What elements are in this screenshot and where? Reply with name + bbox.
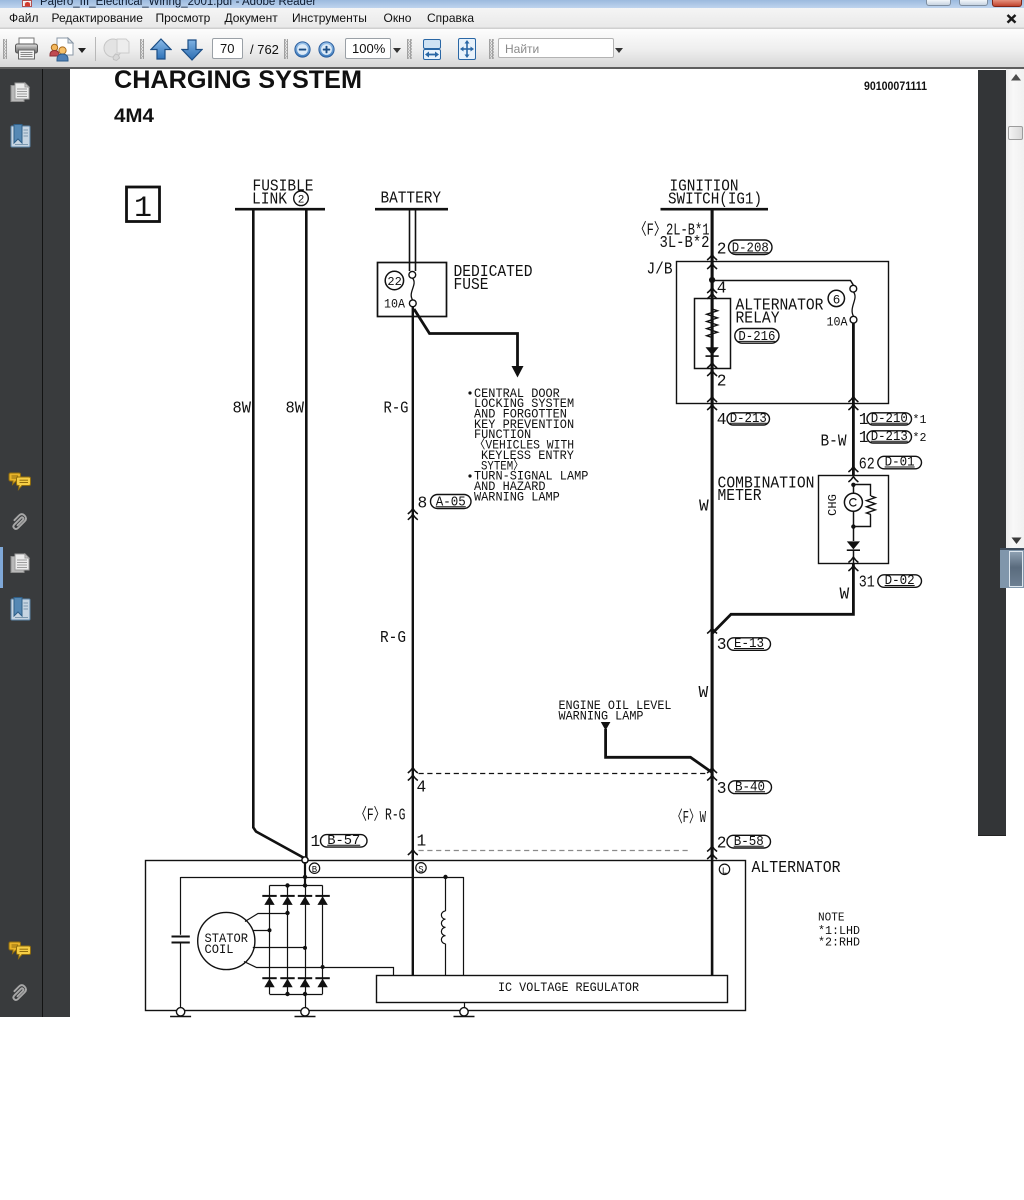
svg-text:2: 2: [298, 195, 305, 207]
svg-text:A-05: A-05: [436, 495, 466, 510]
svg-text:〈F〉R-G: 〈F〉R-G: [356, 806, 406, 825]
scroll up arrow: [1010, 73, 1022, 82]
svg-text:CHARGING SYSTEM: CHARGING SYSTEM: [114, 66, 362, 94]
junction dot lamp bottom: [851, 524, 855, 528]
branch wire to fuse 6: [712, 281, 853, 286]
alternator relay box: [695, 299, 731, 369]
svg-text:*1: *1: [913, 413, 927, 427]
engine oil lamp branch wire: [601, 722, 611, 731]
svg-text:S: S: [418, 865, 423, 875]
svg-text:2: 2: [717, 373, 727, 391]
wire ignition to J/B: [711, 211, 714, 859]
svg-text:D-01: D-01: [885, 456, 915, 471]
fuse number circle 6: [828, 290, 844, 306]
document page background: [70, 69, 979, 1017]
meter diode: [847, 541, 860, 549]
window title bar: [0, 0, 1024, 8]
svg-text:*2:RHD: *2:RHD: [818, 936, 860, 950]
junction E-13 chevron: [707, 628, 717, 634]
svg-text:ALTERNATOR: ALTERNATOR: [752, 859, 841, 877]
svg-text:8W: 8W: [233, 400, 252, 418]
bullet marks: [468, 391, 471, 394]
section marker box 1: [127, 187, 160, 222]
document background right strip: [978, 70, 1006, 836]
svg-text:B-W: B-W: [821, 432, 847, 450]
junction block J/B box: [677, 262, 889, 404]
bridge diode top 1: [262, 895, 276, 897]
outer blue scrollbar thumb: [1000, 548, 1024, 589]
svg-text:WARNING LAMP: WARNING LAMP: [474, 489, 560, 504]
svg-text:2: 2: [717, 241, 727, 259]
svg-text:62: 62: [859, 455, 875, 473]
relay diode: [712, 338, 714, 348]
svg-text:D-216: D-216: [738, 330, 775, 345]
svg-text:1: 1: [417, 833, 427, 851]
svg-text:D-208: D-208: [732, 241, 769, 256]
window minimize button: [926, 0, 951, 6]
pin letter S: [416, 863, 426, 873]
svg-text:4: 4: [417, 779, 427, 797]
stator lead 4 to regulator: [244, 962, 394, 976]
chevrons at B-40: [707, 768, 717, 774]
svg-text:D-213: D-213: [730, 412, 767, 427]
alternator outer box: [146, 861, 746, 1011]
svg-text:31: 31: [859, 574, 875, 592]
ground regulator: [464, 1003, 466, 1009]
svg-text:L: L: [722, 866, 727, 876]
window close button: [992, 0, 1022, 7]
svg-text:RELAY: RELAY: [736, 309, 780, 327]
ignition terminal bar: [661, 208, 769, 211]
svg-text:W: W: [840, 586, 850, 604]
bridge diode bottom 3: [298, 977, 312, 979]
toolbar: [0, 28, 1024, 69]
diode bridge bottom bus: [270, 994, 323, 996]
wire R-G from fuse to alternator: [412, 307, 414, 859]
fuse element symbol: [409, 271, 416, 278]
bridge column 2 wire: [287, 886, 289, 995]
charge warning lamp CHG: [853, 485, 855, 494]
dedicated fuse box: [378, 263, 447, 317]
svg-text:BATTERY: BATTERY: [381, 190, 442, 208]
vertical scrollbar: [1006, 69, 1024, 548]
alternator internal top rail: [181, 877, 464, 879]
bridge diode bottom 1: [262, 977, 276, 979]
svg-text:LINK: LINK: [252, 191, 287, 209]
svg-text:*2: *2: [913, 431, 927, 445]
bridge column 1 wire: [269, 886, 271, 995]
svg-text:D-210: D-210: [871, 412, 908, 427]
wire fuse6 down to combination meter: [852, 323, 855, 475]
svg-text:B-58: B-58: [734, 835, 764, 850]
menu bar: [0, 8, 1024, 28]
arrow branch to other systems: [414, 309, 518, 368]
svg-text:WARNING LAMP: WARNING LAMP: [559, 709, 644, 724]
harness boundary dashed line upper: [419, 773, 708, 775]
svg-text:4: 4: [717, 411, 727, 429]
svg-text:B: B: [312, 865, 318, 875]
wire fusible-link right 8W: [305, 211, 308, 858]
wire L to regulator: [711, 859, 714, 976]
wire meter to E-13 junction: [712, 564, 853, 634]
node B terminal circle: [302, 857, 308, 863]
svg-text:COIL: COIL: [205, 942, 234, 957]
svg-text:CHG: CHG: [826, 494, 840, 516]
branch chevrons to A-05: [408, 509, 418, 515]
wire battery double line: [409, 211, 411, 272]
svg-text:E-13: E-13: [734, 637, 764, 652]
capacitor branch: [180, 877, 182, 935]
bridge diode top 2: [280, 895, 294, 897]
svg-text:8: 8: [418, 495, 428, 513]
connector D-216: [735, 329, 779, 344]
junction dot ignition branch: [709, 277, 715, 283]
svg-text:W: W: [699, 498, 709, 516]
wire fusible-link left 8W: [253, 211, 305, 859]
field circuit right wire: [463, 877, 465, 976]
scroll down arrow: [1011, 537, 1022, 545]
svg-text:IC VOLTAGE REGULATOR: IC VOLTAGE REGULATOR: [498, 980, 639, 995]
svg-text:8W: 8W: [286, 400, 305, 418]
chevron at D-208: [707, 255, 717, 261]
svg-text:B-57: B-57: [327, 834, 360, 849]
pin 2 relay bottom: [707, 363, 717, 369]
svg-text:10A: 10A: [384, 297, 405, 312]
svg-text:B-40: B-40: [735, 780, 765, 795]
junction dot B rail: [303, 875, 307, 879]
svg-text:90100071111: 90100071111: [864, 79, 927, 93]
svg-text:3: 3: [717, 780, 727, 798]
svg-text:22: 22: [387, 275, 401, 289]
pin 31 connector D-02: [848, 566, 858, 572]
stator lead 2: [253, 930, 270, 932]
combination meter box: [819, 476, 889, 564]
IC voltage regulator box: [377, 976, 728, 1003]
harness boundary dashed line lower gray: [419, 850, 691, 852]
stator lead 1: [245, 914, 288, 922]
svg-text:10A: 10A: [827, 314, 848, 329]
svg-text:D-02: D-02: [885, 574, 915, 589]
bridge diode top 3: [298, 895, 312, 897]
ground bridge center: [305, 994, 307, 1008]
fuse 6 element: [850, 285, 857, 292]
bridge column 4 wire: [322, 886, 324, 995]
bridge column 3 wire: [305, 886, 307, 995]
scrollbar thumb: [1008, 126, 1023, 141]
field coil rotor winding: [445, 877, 447, 911]
title text: [40, 0, 316, 8]
svg-text:R-G: R-G: [384, 400, 409, 418]
svg-text:6: 6: [833, 294, 841, 308]
wire B into bridge: [304, 862, 306, 886]
svg-text:J/B: J/B: [647, 261, 673, 279]
bridge diode top 4: [315, 895, 329, 897]
svg-text:FUSE: FUSE: [454, 276, 489, 294]
svg-text:3L-B*2: 3L-B*2: [660, 234, 710, 252]
svg-text:4M4: 4M4: [114, 106, 154, 127]
svg-text:R-G: R-G: [380, 629, 406, 647]
document close x: [1006, 14, 1017, 24]
diode bridge top bus: [270, 885, 323, 887]
svg-text:2: 2: [717, 835, 727, 853]
battery terminal bar: [375, 208, 448, 211]
svg-text:〈F〉W: 〈F〉W: [672, 808, 706, 827]
window maximize button: [959, 0, 988, 6]
fusible link terminal bar: [235, 208, 325, 211]
pin letter L: [719, 864, 729, 874]
ground capacitor: [176, 1008, 184, 1016]
svg-text:W: W: [699, 684, 709, 702]
junction dot field coil tap: [443, 875, 447, 879]
svg-text:1: 1: [134, 192, 152, 226]
relay coil resistor: [707, 309, 718, 338]
bridge diode bottom 4: [315, 977, 329, 979]
svg-text:SWITCH(IG1): SWITCH(IG1): [668, 190, 762, 208]
stator lead 3: [253, 947, 305, 949]
pdf file icon: [22, 0, 32, 7]
svg-text:NOTE: NOTE: [818, 910, 845, 924]
svg-text:METER: METER: [718, 487, 762, 505]
sidebar selection bar: [0, 547, 3, 588]
junction dot lamp top: [851, 483, 855, 487]
pin letter B: [309, 863, 319, 873]
svg-text:4: 4: [717, 280, 727, 298]
navigation sidebar: [0, 69, 70, 1017]
svg-text:D-213: D-213: [871, 430, 908, 445]
fuse number circle 22: [385, 271, 403, 289]
svg-text:3: 3: [717, 636, 727, 654]
wire S to regulator: [412, 855, 414, 976]
bridge diode bottom 2: [280, 977, 294, 979]
svg-text:1: 1: [311, 833, 321, 851]
parallel resistor branch: [853, 485, 870, 497]
stator coil circle: [198, 912, 255, 969]
